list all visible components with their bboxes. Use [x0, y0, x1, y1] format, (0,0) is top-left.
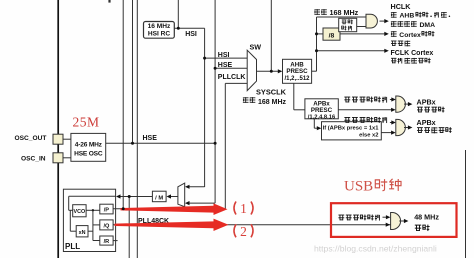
- svg-text:OSC_OUT: OSC_OUT: [15, 135, 47, 142]
- svg-text:16 MHz: 16 MHz: [148, 23, 171, 30]
- svg-text:1: 1: [240, 201, 247, 216]
- svg-text:HSE: HSE: [218, 62, 233, 69]
- svg-text:HCLK: HCLK: [391, 2, 412, 11]
- svg-text:APBx: APBx: [417, 97, 436, 106]
- svg-text:4-26 MHz: 4-26 MHz: [75, 141, 103, 148]
- svg-text:/P: /P: [104, 208, 110, 214]
- svg-text:/Q: /Q: [103, 223, 110, 229]
- svg-text:2: 2: [240, 224, 247, 239]
- svg-text:/R: /R: [104, 239, 110, 245]
- svg-text:/ M: / M: [155, 195, 163, 201]
- svg-text:168 MHz: 168 MHz: [330, 8, 359, 17]
- svg-text:PLL: PLL: [65, 242, 80, 251]
- svg-text:xN: xN: [79, 230, 86, 236]
- svg-text:/8: /8: [329, 32, 335, 39]
- svg-text:/1,2,..512: /1,2,..512: [284, 76, 310, 82]
- svg-text:HSI RC: HSI RC: [148, 31, 171, 38]
- svg-text:/1,2,4,8,16: /1,2,4,8,16: [308, 114, 336, 120]
- svg-text:HSE OSC: HSE OSC: [74, 151, 103, 158]
- svg-text:OSC_IN: OSC_IN: [21, 156, 46, 163]
- svg-text:PRESC: PRESC: [286, 68, 308, 75]
- svg-text:HSI: HSI: [185, 31, 197, 38]
- svg-text:HSI: HSI: [218, 52, 230, 59]
- svg-text:else x2: else x2: [359, 133, 378, 139]
- svg-text:APBx: APBx: [417, 118, 436, 127]
- svg-text:PLLCLK: PLLCLK: [218, 74, 246, 81]
- svg-text:https://blog.csdn.net/zhengnia: https://blog.csdn.net/zhengnianli: [314, 244, 437, 254]
- svg-text:PRESC: PRESC: [311, 107, 333, 114]
- svg-text:If (APBx presc = 1x1: If (APBx presc = 1x1: [323, 125, 380, 131]
- svg-text:FCLK Cortex: FCLK Cortex: [391, 50, 434, 57]
- svg-text:Cortex: Cortex: [399, 32, 421, 39]
- svg-text:DMA: DMA: [420, 22, 436, 29]
- svg-text:VCO: VCO: [74, 209, 86, 215]
- svg-text:AHB: AHB: [400, 13, 415, 20]
- svg-text:USB: USB: [344, 178, 373, 194]
- svg-text:48 MHz: 48 MHz: [414, 213, 439, 222]
- svg-text:25M: 25M: [73, 115, 100, 130]
- svg-text:168 MHz: 168 MHz: [258, 99, 287, 106]
- svg-text:SYSCLK: SYSCLK: [256, 87, 287, 96]
- svg-text:SW: SW: [250, 42, 262, 51]
- svg-text:HSE: HSE: [143, 135, 158, 142]
